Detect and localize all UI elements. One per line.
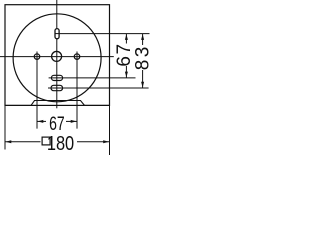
arrow down (83 right) [141, 82, 144, 88]
arrow left (180) [6, 140, 12, 143]
extension line from slot1 to right [49, 77, 136, 79]
bottom profile step line [5, 101, 110, 106]
center hole [52, 51, 62, 61]
dim line 83 right [142, 34, 144, 45]
extension line from slot2 to right [48, 87, 149, 89]
extension line down from left hole [36, 52, 38, 129]
dim line 67 right [125, 34, 127, 44]
svg-text:180: 180 [47, 131, 74, 154]
slot1 [51, 75, 62, 80]
arrow right (180) [103, 140, 109, 143]
dim line 180 bottom [5, 141, 41, 143]
dim line 67 bottom [37, 120, 46, 122]
arrow up (83 right) [141, 34, 144, 40]
top slot [55, 29, 59, 39]
arrow up (67 right) [125, 34, 128, 40]
extension line from top slot to right [55, 33, 150, 35]
big circle body [13, 14, 101, 102]
slot2 [51, 85, 63, 90]
arrow left (67 bottom) [38, 120, 44, 123]
extension line below bottom-left corner [4, 105, 6, 149]
vertical centerline [56, 0, 58, 108]
extension line down from right hole [76, 52, 78, 129]
arrow down (67 right) [125, 72, 128, 78]
svg-text:83: 83 [133, 44, 154, 70]
top slot centerline tick [55, 33, 60, 35]
left hole [34, 54, 39, 59]
right hole [74, 54, 79, 59]
arrow right (67 bottom) [71, 120, 77, 123]
square plate outline 180x180 [5, 5, 110, 106]
extension line below bottom-right corner [109, 105, 111, 155]
horizontal centerline [0, 56, 114, 58]
square symbol [42, 137, 50, 145]
